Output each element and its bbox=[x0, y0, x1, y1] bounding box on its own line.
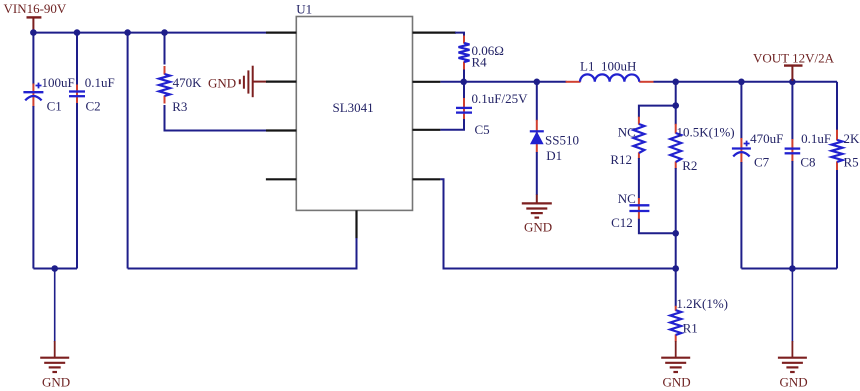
inductor L1 bbox=[566, 59, 654, 82]
op-amp U1 SL3041 body bbox=[296, 2, 412, 211]
wire R3 bottom to IC bbox=[165, 105, 267, 131]
svg-text:C8: C8 bbox=[800, 155, 815, 170]
wire C7 bottom bbox=[740, 162, 742, 269]
svg-text:GND: GND bbox=[663, 375, 691, 390]
wire C7 top bbox=[740, 82, 742, 139]
svg-text:0.1uF: 0.1uF bbox=[85, 75, 115, 90]
node R3 junction bbox=[161, 29, 168, 36]
wire D1 top bbox=[536, 82, 538, 121]
node L1/R2 junction bbox=[672, 79, 679, 86]
svg-text:GND: GND bbox=[524, 220, 552, 235]
node C12/R2 junction bbox=[672, 230, 679, 237]
wire R12 to C12 bbox=[638, 158, 640, 199]
wire L1 to output bus bbox=[654, 81, 838, 83]
node C7 junction bbox=[738, 79, 745, 86]
wire bottom-left bus to IC bbox=[128, 238, 357, 269]
pin U1 left 1 bbox=[266, 31, 296, 33]
capacitor C7 bbox=[732, 131, 783, 170]
ground earth input bbox=[40, 341, 70, 390]
node R1 junction bbox=[672, 265, 679, 272]
pin U1 right 3 bbox=[413, 129, 441, 131]
svg-text:L1 100uH: L1 100uH bbox=[580, 59, 636, 74]
svg-text:SS510: SS510 bbox=[545, 133, 579, 148]
svg-text:R5: R5 bbox=[844, 155, 859, 170]
wire D1 bottom bbox=[536, 152, 538, 195]
wire C1 top bbox=[32, 33, 34, 85]
node D1 junction bbox=[534, 79, 541, 86]
svg-text:SL3041: SL3041 bbox=[333, 100, 374, 115]
node C2 junction bbox=[74, 29, 81, 36]
wire R4 bottom bbox=[463, 70, 465, 82]
svg-text:R1: R1 bbox=[683, 321, 698, 336]
wire output gnd stem bbox=[791, 269, 793, 343]
pin U1 left 4 (nc) bbox=[266, 178, 296, 180]
resistor R12 (NC) bbox=[610, 117, 644, 167]
svg-text:2K: 2K bbox=[844, 131, 860, 146]
node output gnd junction bbox=[789, 265, 796, 272]
ground earth under D1 bbox=[522, 195, 552, 235]
capacitor C1 bbox=[23, 75, 74, 114]
wire C12 bottom to R2 column bbox=[639, 219, 676, 234]
node C8/VOUT junction bbox=[789, 79, 796, 86]
svg-text:C2: C2 bbox=[86, 98, 101, 113]
pin U1 right 2 bbox=[413, 81, 441, 83]
ground GND power port at IC bbox=[208, 66, 267, 98]
svg-text:VOUT 12V/2A: VOUT 12V/2A bbox=[753, 51, 835, 66]
wire R5 top bbox=[836, 82, 838, 131]
svg-text:0.1uF/25V: 0.1uF/25V bbox=[472, 91, 529, 106]
wire C8 bottom bbox=[791, 161, 793, 269]
diode D1 SS510 bbox=[530, 120, 579, 163]
wire output ground bus bbox=[741, 268, 837, 270]
svg-text:470K: 470K bbox=[173, 75, 203, 90]
wire R4 top bbox=[455, 33, 464, 37]
resistor R3 bbox=[159, 66, 202, 114]
pin U1 left 3 bbox=[266, 129, 296, 131]
ground earth R1 bbox=[661, 341, 690, 390]
svg-text:NC: NC bbox=[618, 125, 636, 140]
svg-text:R3: R3 bbox=[172, 99, 187, 114]
resistor R5 bbox=[832, 130, 860, 171]
node R12 branch junction bbox=[672, 102, 679, 109]
wire R5 bottom bbox=[836, 170, 838, 269]
pin U1 bottom bbox=[355, 210, 357, 238]
pin U1 right 1 bbox=[413, 31, 457, 33]
node input gnd junction bbox=[51, 265, 58, 272]
power VOUT 12V/2A bbox=[753, 51, 835, 81]
capacitor C5 bbox=[456, 82, 528, 137]
svg-text:GND: GND bbox=[780, 375, 808, 390]
svg-text:R4: R4 bbox=[472, 55, 488, 70]
wire C1 bottom bbox=[32, 106, 34, 269]
svg-text:GND: GND bbox=[208, 76, 236, 91]
resistor R1 bbox=[670, 296, 728, 342]
svg-text:0.1uF: 0.1uF bbox=[801, 131, 831, 146]
wire switch node bbox=[440, 81, 566, 83]
wire C5 bottom to IC bbox=[440, 119, 464, 130]
pin U1 right 4 bbox=[413, 178, 441, 180]
svg-text:VIN16-90V: VIN16-90V bbox=[4, 1, 67, 16]
wire C1/C2 ground bus bbox=[33, 268, 77, 270]
wire feedback bus bbox=[440, 179, 675, 268]
power VIN16-90V bbox=[4, 1, 67, 32]
node R4/C5 junction bbox=[460, 79, 467, 86]
wire C2 bottom bbox=[76, 103, 78, 269]
svg-text:100uF: 100uF bbox=[42, 75, 75, 90]
capacitor C12 (NC) bbox=[611, 191, 649, 230]
wire input gnd stem bbox=[54, 269, 56, 343]
svg-text:C7: C7 bbox=[754, 155, 770, 170]
svg-text:D1: D1 bbox=[546, 148, 562, 163]
capacitor C2 bbox=[69, 75, 115, 114]
svg-text:1.2K(1%): 1.2K(1%) bbox=[676, 296, 728, 311]
svg-text:C12: C12 bbox=[611, 215, 633, 230]
svg-text:R2: R2 bbox=[682, 158, 697, 173]
wire C2 top bbox=[76, 33, 78, 85]
svg-text:C5: C5 bbox=[475, 122, 490, 137]
wire R2 bottom bbox=[675, 168, 677, 269]
svg-text:GND: GND bbox=[42, 375, 70, 390]
wire R1 top bbox=[675, 269, 677, 307]
wire R12 branch top bbox=[639, 106, 676, 118]
svg-text:C1: C1 bbox=[47, 98, 62, 113]
wire C8 top bbox=[791, 82, 793, 140]
wire left drop bbox=[127, 33, 129, 269]
node drop junction bbox=[124, 29, 131, 36]
svg-text:U1: U1 bbox=[296, 2, 312, 17]
ground earth output bbox=[778, 341, 808, 390]
svg-text:R12: R12 bbox=[610, 152, 632, 167]
wire R3 top bbox=[164, 33, 166, 65]
resistor R4 bbox=[459, 36, 504, 71]
svg-text:470uF: 470uF bbox=[750, 131, 783, 146]
svg-text:10.5K(1%): 10.5K(1%) bbox=[677, 125, 735, 140]
wire R2 column top bbox=[675, 82, 677, 125]
svg-text:NC: NC bbox=[618, 191, 636, 206]
resistor R2 bbox=[670, 124, 734, 173]
wire top input bus bbox=[33, 32, 266, 34]
node VIN junction bbox=[30, 29, 37, 36]
capacitor C8 bbox=[785, 131, 831, 170]
pin U1 left 2 (GND) bbox=[266, 80, 296, 82]
